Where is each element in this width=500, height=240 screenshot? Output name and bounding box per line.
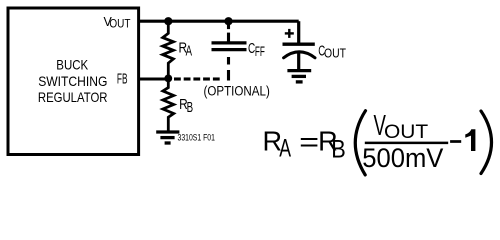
svg-text:FB: FB <box>117 71 128 87</box>
equation minus one <box>450 129 475 151</box>
svg-text:OUT: OUT <box>109 17 130 31</box>
svg-text:B: B <box>331 136 346 164</box>
ground under COUT <box>287 71 311 82</box>
node junction dot FB <box>164 75 172 83</box>
equation term RA <box>263 126 292 163</box>
equation fraction bar <box>365 142 448 145</box>
svg-text:3310S1 F01: 3310S1 F01 <box>178 133 215 143</box>
svg-text:=: = <box>299 127 319 157</box>
node junction dot VOUT/CFF <box>224 17 232 25</box>
capacitor COUT top plate <box>283 43 315 46</box>
svg-text:REGULATOR: REGULATOR <box>38 89 108 105</box>
wire COUT to ground <box>297 53 300 71</box>
label COUT <box>318 44 346 61</box>
capacitor CFF <box>212 43 247 50</box>
wire VOUT horizontal <box>139 20 299 23</box>
wire VOUT corner down to COUT <box>297 21 300 44</box>
svg-text:A: A <box>186 43 193 59</box>
wire dashed CFF top stub <box>227 21 230 41</box>
svg-text:OUT: OUT <box>384 121 428 143</box>
ground under RB <box>156 132 179 143</box>
svg-text:OUT: OUT <box>324 46 346 61</box>
capacitor COUT curved plate <box>284 52 315 58</box>
svg-text:SWITCHING: SWITCHING <box>38 74 107 89</box>
label RB <box>179 97 193 116</box>
resistor RA <box>163 21 174 79</box>
wire FB horizontal <box>139 77 169 80</box>
wire dashed CFF bottom <box>227 57 230 81</box>
resistor RB <box>163 79 174 131</box>
node junction dot VOUT/RA <box>164 17 172 25</box>
wire dashed FB to CFF <box>174 77 220 80</box>
svg-text:A: A <box>279 135 291 163</box>
svg-text:500mV: 500mV <box>362 143 443 173</box>
polarity plus sign <box>285 29 294 38</box>
equation left parenthesis <box>355 111 365 175</box>
label CFF <box>248 41 265 59</box>
svg-text:B: B <box>187 100 194 116</box>
svg-text:(OPTIONAL): (OPTIONAL) <box>204 83 270 99</box>
equation right parenthesis <box>481 111 492 174</box>
pin label VOUT <box>104 14 131 31</box>
pin label FB <box>117 71 128 87</box>
label RA <box>179 41 193 60</box>
svg-text:FF: FF <box>255 43 265 59</box>
equation term RB <box>318 126 346 164</box>
equation numerator VOUT <box>374 110 429 143</box>
svg-text:BUCK: BUCK <box>56 57 88 72</box>
buck switching regulator block U1 <box>8 8 139 155</box>
